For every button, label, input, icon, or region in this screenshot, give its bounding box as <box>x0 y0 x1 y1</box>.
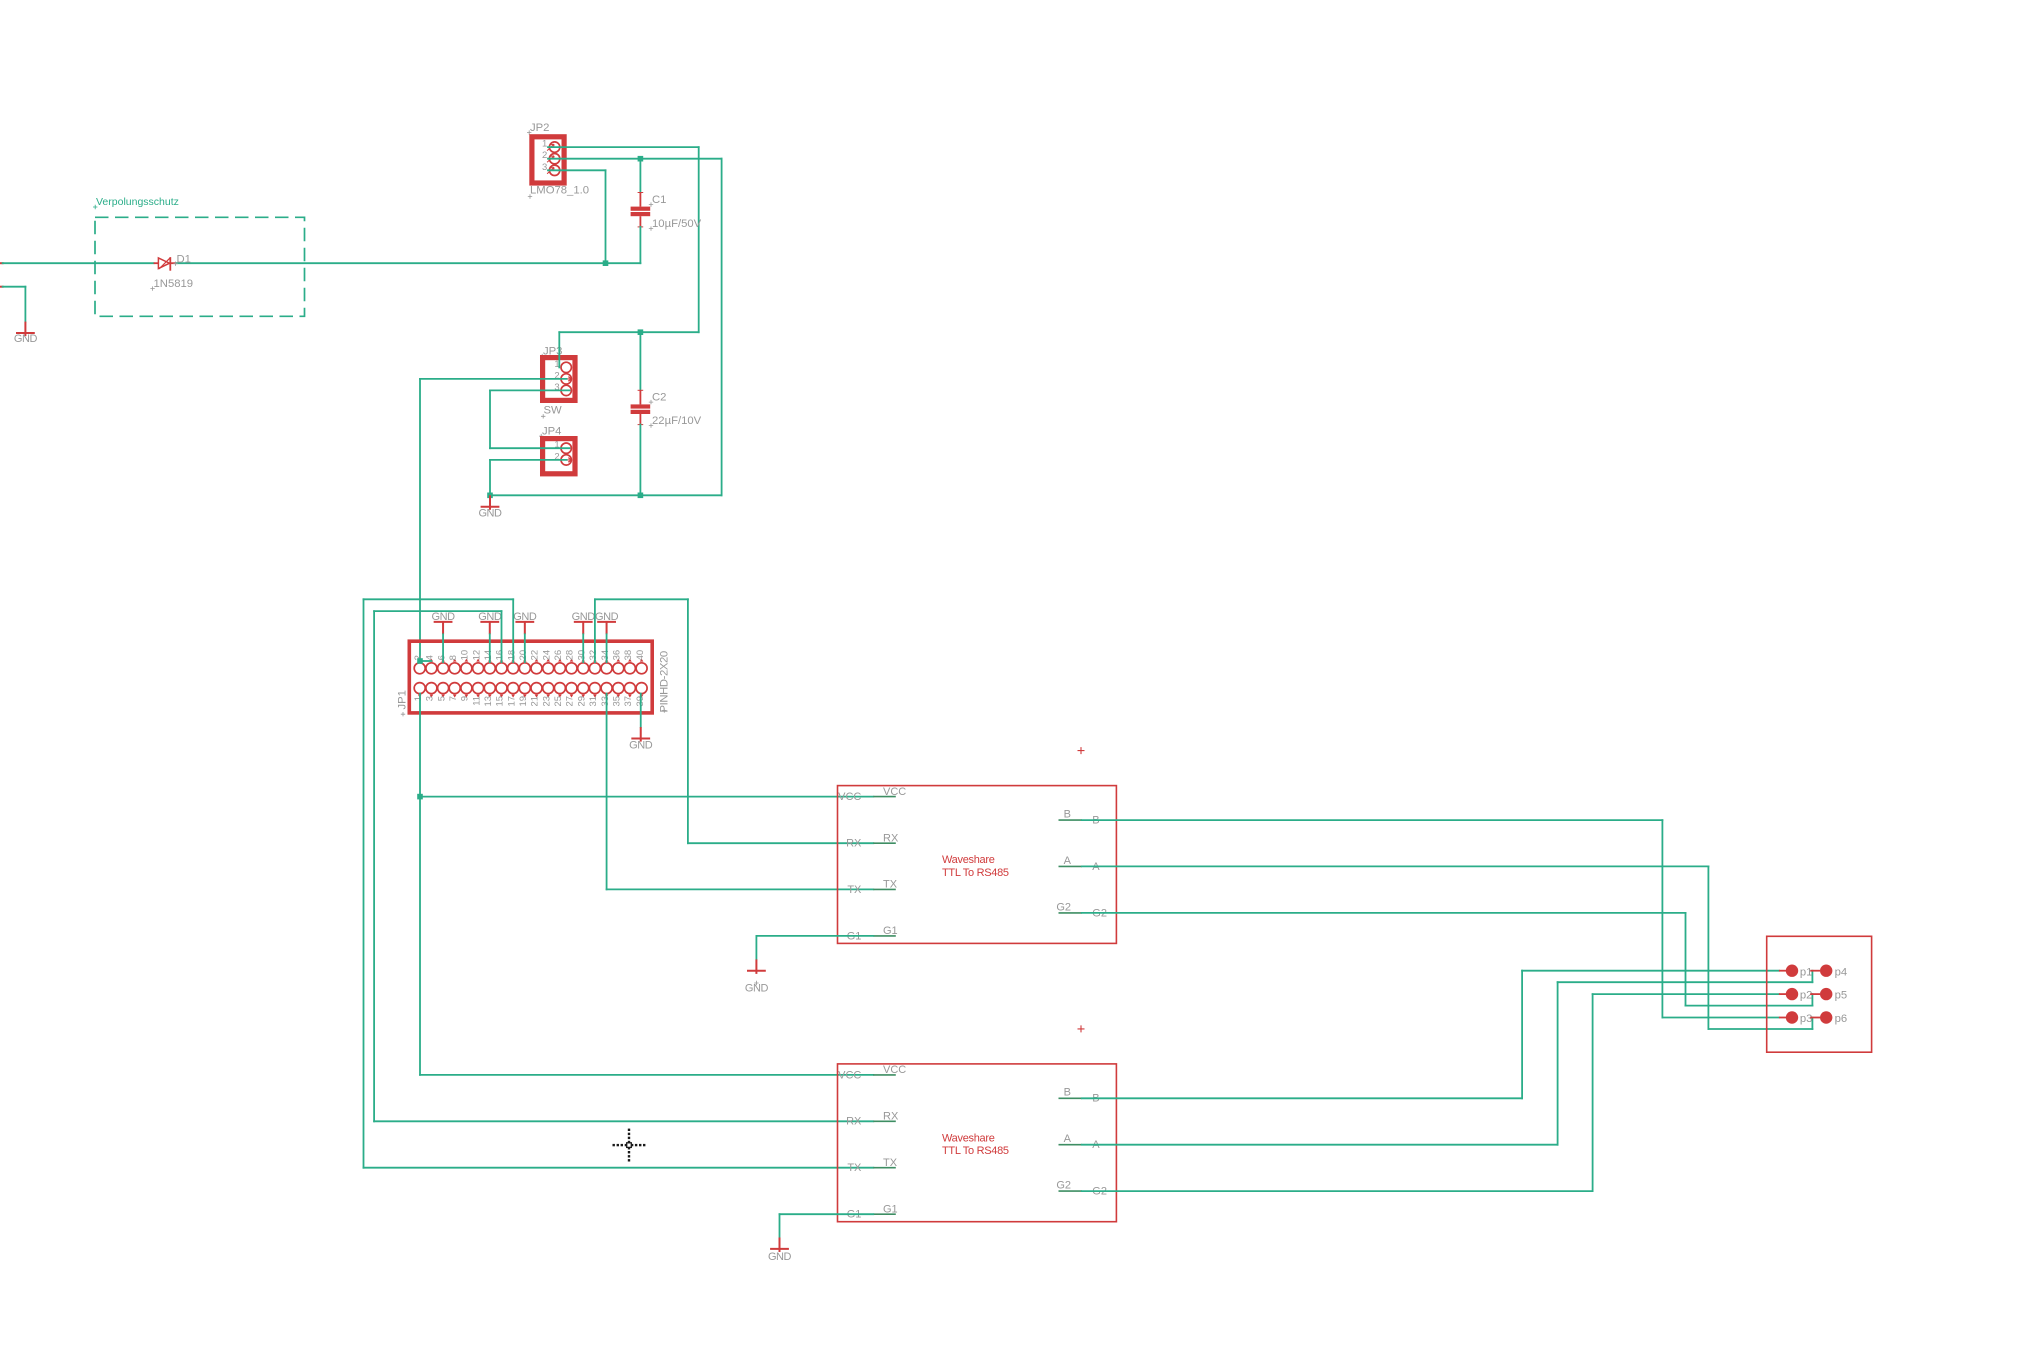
wire pin1 VCC vertical <box>419 694 421 1075</box>
wire long vertical x=363.5 <box>363 599 365 1167</box>
svg-text:2: 2 <box>542 150 547 161</box>
JP1 pin 15 <box>496 683 507 694</box>
JP1 pin 37 <box>624 683 635 694</box>
wire to p3 <box>1662 1017 1779 1019</box>
ground symbol GND (WS1 G1) <box>755 959 757 974</box>
connector JP4 box <box>543 439 575 474</box>
module U1 pin RX <box>873 842 896 844</box>
svg-text:p3: p3 <box>1800 1013 1813 1025</box>
pin p4 <box>1810 970 1820 972</box>
JP1 pin 35 <box>613 683 624 694</box>
JP1 pin 34 <box>601 663 612 674</box>
svg-text:34: 34 <box>600 650 611 661</box>
junction JP2.2 / C1 <box>638 156 644 162</box>
wire WS2 A right <box>1082 1144 1558 1146</box>
wire C2 top green <box>639 332 641 390</box>
svg-text:10µF/50V: 10µF/50V <box>652 218 702 230</box>
ground symbol GND (left edge) <box>24 322 26 337</box>
wire VCC to WS1 <box>420 796 873 798</box>
svg-text:1N5819: 1N5819 <box>154 278 194 290</box>
module U2 pin VCC <box>873 1074 896 1076</box>
module U1 pin G2 <box>1059 912 1082 914</box>
pin p5 <box>1810 993 1820 995</box>
wire to p2 <box>1593 993 1779 995</box>
junction VCC / WS1 <box>417 794 423 800</box>
JP1 pin 27 <box>566 683 577 694</box>
ground symbol GND (under JP4) <box>489 495 491 510</box>
wire GND from edge <box>3 286 26 288</box>
module U2 pin G1 <box>873 1213 896 1215</box>
svg-text:B: B <box>1064 1087 1071 1099</box>
wire JP2.1 to right <box>548 146 699 148</box>
JP1 pin 14 <box>484 663 495 674</box>
wire x=420 down to JP1 pin2 <box>419 379 421 661</box>
svg-text:G1: G1 <box>883 1203 898 1215</box>
svg-text:38: 38 <box>623 650 634 661</box>
net VIN off-page stub <box>0 262 3 264</box>
svg-text:12: 12 <box>471 650 482 661</box>
svg-text:22: 22 <box>530 650 541 661</box>
svg-text:15: 15 <box>495 696 506 707</box>
wire JP3.1 rail y=332 <box>559 331 698 333</box>
connector JP3 box <box>543 358 575 401</box>
wire JP4.1 to left <box>490 447 570 449</box>
svg-text:TX: TX <box>847 1162 862 1174</box>
module U1 pin TX <box>873 888 896 890</box>
svg-text:40: 40 <box>635 650 646 661</box>
module U1 pin A <box>1059 865 1082 867</box>
svg-text:22µF/10V: 22µF/10V <box>652 415 702 427</box>
JP1 pin 31 <box>589 683 600 694</box>
junction VIN / JP2 pin3 <box>603 260 609 266</box>
wire p6 jog up <box>1811 1018 1813 1030</box>
svg-text:VCC: VCC <box>883 1064 906 1076</box>
svg-text:G1: G1 <box>883 925 898 937</box>
module U2 origin cross <box>1078 1025 1085 1032</box>
wire WS1 B right <box>1082 819 1663 821</box>
svg-text:GND: GND <box>629 739 653 751</box>
JP1 pin 3 <box>426 683 437 694</box>
svg-text:11: 11 <box>471 696 482 706</box>
wire WS1 G1 down <box>755 936 757 960</box>
JP1 pin 11 <box>473 683 484 694</box>
pin p6 <box>1810 1017 1820 1019</box>
module U1 pin VCC <box>873 796 896 798</box>
pin p2 <box>1779 993 1786 995</box>
wire pin39 down <box>640 694 642 728</box>
svg-text:32: 32 <box>588 650 599 661</box>
wire down x=721.6 to GND rail <box>721 159 723 496</box>
JP1 pin 17 <box>508 683 519 694</box>
JP1 pin 20 <box>519 663 530 674</box>
module U2 pin A <box>1059 1144 1082 1146</box>
svg-text:SW: SW <box>544 405 563 417</box>
wire to WS1 TX <box>607 888 874 890</box>
svg-text:GND: GND <box>768 1251 792 1263</box>
wire to p6 jog <box>1708 1028 1812 1030</box>
wire WS2 B right <box>1082 1097 1522 1099</box>
JP1 pin 16 <box>496 663 507 674</box>
pin p1 <box>1779 970 1786 972</box>
JP1 pin 40 <box>636 663 647 674</box>
wire to p5 jog <box>1686 1005 1813 1007</box>
svg-text:9: 9 <box>460 696 471 701</box>
pin p3 <box>1779 1017 1786 1019</box>
svg-text:JP4: JP4 <box>542 426 561 438</box>
svg-text:3: 3 <box>542 162 547 173</box>
wire WS1 G1 <box>756 935 873 937</box>
wire p4 jog up <box>1811 971 1813 983</box>
svg-text:GND: GND <box>14 333 38 345</box>
wire WS2 G2 up <box>1592 994 1594 1191</box>
svg-text:4: 4 <box>425 655 436 660</box>
wire pin32 up <box>594 599 596 662</box>
wire down to JP3 pin1 <box>558 332 560 367</box>
JP1 pin 38 <box>624 663 635 674</box>
JP1 pin 18 <box>508 663 519 674</box>
JP1 pin 24 <box>543 663 554 674</box>
module U2 pin G2 <box>1059 1190 1082 1192</box>
svg-text:17: 17 <box>506 696 517 707</box>
wire JP2.2 to right <box>548 158 722 160</box>
svg-text:36: 36 <box>612 650 623 661</box>
wire to p4 jog <box>1558 981 1813 983</box>
wire C2 bottom green <box>639 425 641 496</box>
ground symbol GND (under JP1 pin39) <box>640 727 642 742</box>
wire WS1 B down <box>1661 820 1663 1017</box>
svg-text:20: 20 <box>518 650 529 661</box>
junction GND rail / C2 <box>638 493 644 499</box>
svg-text:A: A <box>1064 1133 1072 1145</box>
svg-text:7: 7 <box>448 696 459 701</box>
svg-text:B: B <box>1064 809 1071 821</box>
JP1 pin 36 <box>613 663 624 674</box>
svg-text:PINHD-2X20: PINHD-2X20 <box>658 651 670 712</box>
svg-text:D1: D1 <box>177 254 191 266</box>
JP1 pin 32 <box>589 663 600 674</box>
module U2 pin B <box>1059 1097 1082 1099</box>
svg-text:VCC: VCC <box>883 786 906 798</box>
junction rail / C2 top <box>638 329 644 335</box>
junction JP1 pin2 tie <box>417 658 423 664</box>
svg-text:p6: p6 <box>1835 1013 1848 1025</box>
svg-text:1: 1 <box>542 139 547 150</box>
svg-text:31: 31 <box>588 696 599 707</box>
JP1 pin 21 <box>531 683 542 694</box>
module U2 pin TX <box>873 1167 896 1169</box>
svg-text:Waveshare: Waveshare <box>942 854 995 866</box>
wire C1 bottom green <box>639 227 641 263</box>
svg-text:RX: RX <box>883 1111 899 1123</box>
wire WS2 G1 down <box>779 1214 781 1237</box>
wire down to pin16 <box>501 611 503 662</box>
wire JP4.2 to left <box>490 459 567 461</box>
svg-text:16: 16 <box>495 650 506 661</box>
connector JP2 box <box>532 137 564 183</box>
connector JP1 box <box>409 641 652 713</box>
svg-text:18: 18 <box>506 650 517 661</box>
svg-text:p2: p2 <box>1800 990 1813 1002</box>
svg-text:C1: C1 <box>652 194 666 206</box>
JP1 pin 29 <box>578 683 589 694</box>
svg-text:23: 23 <box>541 696 552 707</box>
svg-text:29: 29 <box>576 696 587 707</box>
wire to p1 <box>1522 970 1779 972</box>
wire GND rail y=495 <box>490 494 722 496</box>
wire JP2.3 down to VIN <box>605 170 607 263</box>
svg-text:p4: p4 <box>1835 966 1848 978</box>
JP1 pin 12 <box>473 663 484 674</box>
JP1 pin 23 <box>543 683 554 694</box>
wire p5 jog up <box>1811 994 1813 1006</box>
svg-text:RX: RX <box>846 838 862 850</box>
wire x=490 down to GND rail <box>489 460 491 495</box>
svg-text:6: 6 <box>436 655 447 660</box>
svg-text:p5: p5 <box>1835 990 1848 1002</box>
svg-text:A: A <box>1064 855 1072 867</box>
wire WS2 G1 <box>780 1213 874 1215</box>
module U1 origin cross <box>1078 747 1085 754</box>
svg-text:GND: GND <box>478 508 502 520</box>
svg-text:1: 1 <box>413 696 424 701</box>
junction GND rail / JP4.2 <box>487 493 493 499</box>
wire WS1 A right <box>1082 865 1709 867</box>
JP1 pin 13 <box>484 683 495 694</box>
diode D1 <box>154 262 159 264</box>
svg-text:VCC: VCC <box>838 1069 861 1081</box>
svg-text:TX: TX <box>847 884 862 896</box>
wire to WS1 RX <box>688 842 873 844</box>
wire down to pin18 <box>512 599 514 662</box>
module U2 Waveshare TTL To RS485 box <box>838 1064 1117 1222</box>
svg-text:30: 30 <box>576 650 587 661</box>
JP1 pin 5 <box>438 683 449 694</box>
svg-text:VCC: VCC <box>838 791 861 803</box>
svg-text:8: 8 <box>448 655 459 660</box>
wire to WS2 TX <box>364 1167 874 1169</box>
wire gnd flag to pin 30 <box>582 634 584 662</box>
svg-text:13: 13 <box>483 696 494 707</box>
JP1 pin 6 <box>438 663 449 674</box>
svg-text:RX: RX <box>846 1116 862 1128</box>
wire WS2 A up <box>1557 982 1559 1144</box>
connector J-out box <box>1767 936 1872 1052</box>
wire JP3.3 to left <box>490 389 570 391</box>
svg-text:28: 28 <box>565 650 576 661</box>
JP1 pin 25 <box>554 683 565 694</box>
wire down x=687.9 <box>687 599 689 843</box>
JP1 pin 39 <box>636 683 647 694</box>
wire pin16 horizontal y=611 <box>374 610 501 612</box>
wire pin33 down <box>606 694 608 890</box>
wire down x=698.7 <box>698 147 700 332</box>
svg-text:27: 27 <box>565 696 576 707</box>
svg-text:35: 35 <box>612 696 623 707</box>
svg-text:19: 19 <box>518 696 529 707</box>
svg-text:JP1: JP1 <box>397 690 409 709</box>
svg-text:JP2: JP2 <box>530 122 549 134</box>
module U1 Waveshare TTL To RS485 box <box>838 786 1117 944</box>
JP1 pin 7 <box>449 683 460 694</box>
svg-text:37: 37 <box>623 696 634 707</box>
svg-text:Verpolungsschutz: Verpolungsschutz <box>96 196 179 208</box>
module U2 pin RX <box>873 1120 896 1122</box>
wire WS1 G2 down <box>1685 913 1687 1006</box>
wire JP2.3 to right <box>548 169 606 171</box>
svg-text:G2: G2 <box>1056 901 1071 913</box>
JP1 pin 2 <box>414 663 425 674</box>
wire VIN right of D1 to C1 <box>176 262 640 264</box>
wire gnd flag to pin 34 <box>606 634 608 662</box>
svg-text:TTL To RS485: TTL To RS485 <box>942 1145 1009 1157</box>
module U1 pin G1 <box>873 935 896 937</box>
JP1 pin 28 <box>566 663 577 674</box>
wire JP3.2 to left <box>420 378 567 380</box>
JP1 pin 1 <box>414 683 425 694</box>
protection dashed box <box>95 217 305 316</box>
JP1 pin 26 <box>554 663 565 674</box>
wire to WS2 RX <box>374 1120 873 1122</box>
svg-text:24: 24 <box>541 650 552 661</box>
svg-text:3: 3 <box>425 696 436 701</box>
svg-text:TX: TX <box>883 1157 898 1169</box>
JP1 pin 33 <box>601 683 612 694</box>
svg-text:33: 33 <box>600 696 611 707</box>
net GND off-page stub <box>0 286 3 288</box>
svg-text:TX: TX <box>883 879 898 891</box>
wire pin32 rail <box>595 598 688 600</box>
wire WS2 B up <box>1521 971 1523 1099</box>
wire C1 top green <box>639 159 641 193</box>
wire GND down <box>24 287 26 322</box>
wire gnd flag to pin 14 <box>489 634 491 662</box>
svg-text:21: 21 <box>530 696 541 707</box>
svg-text:5: 5 <box>436 696 447 701</box>
JP1 pin 10 <box>461 663 472 674</box>
wire VCC to WS2 <box>420 1074 873 1076</box>
wire WS1 A down <box>1707 866 1709 1029</box>
svg-text:10: 10 <box>460 650 471 661</box>
ground symbol GND (WS2 G1) <box>779 1238 781 1253</box>
wire VIN left of D1 <box>3 262 154 264</box>
svg-text:TTL To RS485: TTL To RS485 <box>942 867 1009 879</box>
JP1 pin 30 <box>578 663 589 674</box>
svg-text:RX: RX <box>883 832 899 844</box>
svg-text:p1: p1 <box>1800 966 1813 978</box>
cursor crosshair <box>613 1129 646 1162</box>
svg-text:26: 26 <box>553 650 564 661</box>
wire pin18 horizontal y=599 <box>364 598 514 600</box>
wire WS1 G2 right <box>1082 912 1686 914</box>
wire gnd flag to pin 20 <box>524 634 526 662</box>
JP1 pin 9 <box>461 683 472 694</box>
wire gnd flag to pin 6 <box>442 634 444 662</box>
JP1 pin 8 <box>449 663 460 674</box>
module U1 pin B <box>1059 819 1082 821</box>
svg-text:14: 14 <box>483 650 494 661</box>
svg-text:Waveshare: Waveshare <box>942 1132 995 1144</box>
svg-text:LMO78_1.0: LMO78_1.0 <box>530 185 589 197</box>
wire x=490 down to JP4.1 <box>489 390 491 448</box>
svg-text:25: 25 <box>553 696 564 707</box>
svg-text:G2: G2 <box>1056 1180 1071 1192</box>
JP1 pin 19 <box>519 683 530 694</box>
wire long vertical x=374 <box>373 611 375 1121</box>
JP1 pin 22 <box>531 663 542 674</box>
JP1 pin 4 <box>426 663 437 674</box>
svg-text:C2: C2 <box>652 392 666 404</box>
wire WS2 G2 right <box>1082 1190 1593 1192</box>
wire tie pin2-pin4 <box>420 660 431 662</box>
